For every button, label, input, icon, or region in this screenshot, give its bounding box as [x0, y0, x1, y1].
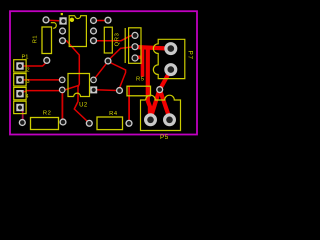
P1 pin digit 4	[26, 94, 29, 100]
pad P7.1	[164, 42, 177, 55]
pad R3.top	[104, 17, 111, 24]
P7 label	[187, 51, 194, 60]
pad U1.4	[90, 37, 97, 44]
connector P1 label	[22, 55, 29, 61]
resistor R4 label	[109, 111, 118, 117]
wire P1.4 to R2.left (dark crimson)	[22, 109, 24, 121]
R1 label	[32, 35, 38, 43]
wire R4.right up along R5	[128, 86, 130, 121]
wire R3.bottom to R5.left	[109, 62, 126, 89]
pad R2.left	[19, 119, 26, 126]
connector P7 outline with entry arcs	[153, 39, 184, 78]
thick trace QR3.middle to P7.pad1	[135, 47, 171, 49]
wire U2 pin to R2.right	[61, 92, 63, 120]
pad U2.b	[59, 87, 66, 94]
pad R1.bottom	[43, 57, 50, 64]
pad R5.right	[156, 86, 163, 93]
pad P5.2	[163, 113, 176, 126]
resistor R3 outline	[104, 27, 112, 53]
wire U1 pin6 to R3.top	[96, 20, 106, 22]
svg-text:U2: U2	[79, 102, 88, 108]
svg-text:2: 2	[27, 68, 30, 74]
svg-text:4: 4	[26, 94, 29, 100]
op-amp U1 outline	[69, 16, 86, 47]
pad P5.1	[144, 113, 157, 126]
pad U1.2	[59, 27, 66, 34]
pad U2.1 (square)	[90, 86, 97, 93]
svg-text:P5: P5	[160, 134, 169, 141]
P1 pad4 box	[14, 101, 26, 113]
P1 pad3 box	[14, 87, 26, 99]
pad R4.left	[86, 120, 93, 127]
svg-text:R5: R5	[136, 77, 145, 83]
pad R4.right	[125, 120, 132, 127]
resistor R2 label	[43, 110, 52, 116]
pad U1.3	[59, 37, 66, 44]
U1 silk pin1 dot	[61, 13, 63, 15]
wire U1 pin3 to U2 and R4.left	[64, 41, 89, 123]
silk hook near R1	[51, 23, 56, 28]
svg-text:R4: R4	[109, 111, 118, 117]
P5 label	[160, 134, 169, 141]
wire branch to U2 pin	[63, 85, 79, 90]
resistor R1 outline	[42, 27, 52, 54]
resistor R5 outline	[127, 86, 151, 96]
pad QR3.1	[131, 32, 138, 39]
P1 pin digit 2	[27, 68, 30, 74]
pad U1.1 (square)	[59, 17, 66, 24]
P1 pad1 box	[14, 60, 26, 72]
pad U2.c	[90, 77, 97, 84]
svg-text:P7: P7	[187, 51, 194, 60]
P1 pad2 box	[14, 74, 26, 86]
pad R3.bottom	[104, 57, 111, 64]
connector P5 outline with entry arcs	[141, 95, 181, 130]
pad U2.a	[59, 77, 66, 84]
svg-text:R1: R1	[32, 35, 38, 43]
wire P1.2 to U2 pin	[21, 79, 60, 81]
pad U1.6	[90, 17, 97, 24]
wire P1.3 to U2 pin	[21, 91, 60, 93]
resistor R4 outline	[97, 117, 123, 130]
board outline	[10, 11, 197, 134]
resistor R2 outline	[31, 118, 59, 130]
transistor QR3 outline	[125, 28, 141, 64]
U2 label	[79, 102, 88, 108]
thick trace R5.right to P5.pad1	[151, 90, 160, 118]
thick trace P7.pad2 to R5.right	[160, 70, 171, 89]
pad R5.left	[116, 87, 123, 94]
wire R3.bottom to QR3.middle	[109, 47, 134, 60]
transistor QR3 label	[114, 32, 120, 46]
opto U2 outline	[68, 74, 90, 97]
pad QR3.2	[131, 43, 138, 50]
svg-text:R2: R2	[43, 110, 52, 116]
P1 pin digit 3	[27, 79, 30, 85]
svg-text:QR3: QR3	[114, 32, 120, 46]
pad P7.2	[164, 63, 177, 76]
thick trace R5.right to P5.pad2	[160, 90, 170, 118]
wire U2 pin to R3.bottom	[95, 63, 107, 79]
resistor R5 label	[136, 77, 145, 83]
pad R1.top	[42, 16, 49, 23]
thick trace QR3.bottom stub and vertical	[135, 49, 143, 77]
thick trace vertical down to P5.pad1	[148, 49, 150, 117]
wire U2 square pin to R5.left	[96, 89, 118, 92]
pad R2.right	[59, 118, 66, 125]
pad U1.5	[90, 27, 97, 34]
pad QR3.3	[131, 54, 138, 61]
wire R1.top to U1 pin1	[48, 19, 59, 22]
wire U1 pin4 to QR3.top	[96, 36, 134, 41]
svg-text:3: 3	[27, 79, 30, 85]
wire P1.1 to R1.bottom	[21, 63, 46, 67]
